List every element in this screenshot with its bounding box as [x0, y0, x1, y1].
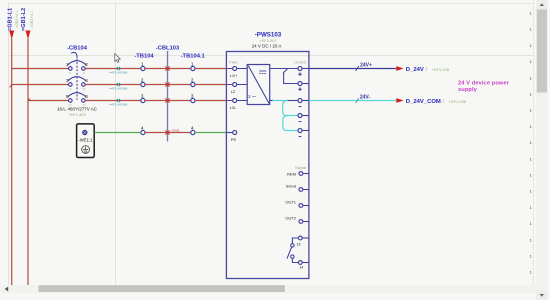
svg-text:~: ~	[252, 92, 257, 101]
interruption arrow 2	[26, 31, 31, 40]
svg-text:=KF1.403 BK: =KF1.403 BK	[109, 70, 127, 74]
svg-text:14: 14	[299, 266, 303, 270]
svg-text:InAC: InAC	[229, 60, 238, 65]
signal section label	[295, 165, 306, 170]
svg-text:D_24V: D_24V	[406, 67, 424, 73]
terminal strip TB104	[134, 54, 154, 60]
wire WE1 to TB104:4 (green PE)	[94, 132, 140, 134]
cable conductor mark PE	[165, 128, 179, 134]
wire rail 2 vertical	[27, 39, 29, 286]
cable conductor mark row1	[165, 66, 169, 70]
svg-text:+KF1.206: +KF1.206	[432, 67, 450, 72]
horizontal scrollbar	[0, 285, 536, 293]
wire CB104 to TB104 row2	[85, 84, 141, 86]
interruption arrow D_24V	[396, 66, 450, 73]
wire 24V-	[309, 95, 396, 103]
svg-text:-CB104: -CB104	[67, 45, 88, 51]
svg-text:=KF1.403 BK: =KF1.403 BK	[109, 86, 127, 90]
interruption point label =GB1-L2	[21, 8, 34, 31]
svg-text:Signal: Signal	[295, 165, 306, 170]
wire L2	[10, 85, 69, 88]
terminal TB104.1:3	[191, 94, 195, 103]
PWS103 terminal - (2)	[298, 114, 309, 122]
CB104 pole 3	[66, 93, 88, 107]
frame column index digits	[530, 11, 533, 275]
cable CBL103	[156, 46, 180, 142]
note 24V device power supply	[458, 80, 510, 93]
svg-text:-CBL103: -CBL103	[156, 46, 180, 52]
jumper + terminals	[284, 69, 298, 84]
connection definition point row2	[109, 83, 127, 91]
PWS103 terminal L2	[226, 83, 247, 94]
interruption arrow 1	[9, 31, 14, 40]
svg-text:=GB1+4.1: =GB1+4.1	[30, 11, 34, 28]
wire 24V+	[309, 63, 396, 71]
wire CB104 to TB104 row1	[85, 68, 141, 70]
svg-text:+KF1.403: +KF1.403	[68, 112, 86, 117]
PWS103 terminal + (2)	[298, 82, 309, 92]
PWS103 terminal OUT1	[285, 200, 309, 208]
svg-text:L3/-: L3/-	[230, 105, 238, 110]
svg-text:supply: supply	[458, 87, 478, 93]
CB104 pole 2	[66, 77, 88, 91]
CB104 pole 1	[66, 61, 88, 75]
wire CB104 to TB104 row3	[85, 100, 141, 102]
svg-text:-WE1:1: -WE1:1	[79, 138, 94, 143]
svg-text:+KF1.407: +KF1.407	[259, 38, 277, 43]
wire L3	[28, 98, 69, 101]
terminal TB104:4	[141, 126, 145, 135]
svg-text:+KF1.206: +KF1.206	[449, 99, 467, 104]
PWS103 terminal PE	[226, 131, 236, 142]
wire converter to OutDC - (internal, cyan segment)	[270, 100, 298, 102]
svg-text:-TB104: -TB104	[134, 54, 154, 60]
wire L1	[12, 68, 69, 70]
power supply U1 PWS103 block	[226, 32, 309, 279]
interruption arrow D_24V_COM	[396, 98, 467, 105]
svg-text:=GB1-L2: =GB1-L2	[21, 8, 27, 31]
svg-text:13: 13	[297, 242, 301, 246]
relay contact 13/14	[287, 236, 309, 270]
wire TB104 to TB104.1 row1	[145, 68, 191, 70]
PWS103 terminal - (1)	[298, 99, 309, 107]
earth electrode WE1	[77, 124, 95, 158]
terminal TB104:2	[141, 78, 145, 87]
wire TB104.1 to PWS103 L2	[195, 84, 226, 86]
svg-text:=GB1-L1: =GB1-L1	[7, 8, 13, 31]
connection definition point row3	[109, 99, 127, 107]
terminal TB104.1:1	[191, 62, 195, 71]
jumper - terminals (cyan)	[283, 101, 298, 131]
PWS103 terminal REM	[287, 171, 309, 176]
cable conductor mark row2	[165, 82, 169, 86]
svg-text:SGnd: SGnd	[286, 184, 296, 189]
PWS103 terminal L1/+	[226, 67, 247, 78]
svg-text:24V+: 24V+	[360, 63, 372, 69]
wire rail 1 vertical	[11, 39, 13, 286]
svg-text:24V-: 24V-	[360, 95, 371, 101]
svg-text:PE: PE	[231, 137, 237, 142]
mouse cursor	[115, 54, 121, 63]
svg-text:D_24V_COM: D_24V_COM	[406, 99, 441, 105]
interruption point label =GB1-L1	[7, 8, 19, 31]
svg-text:=KF1.403 BK: =KF1.403 BK	[109, 102, 127, 106]
svg-text:3: 3	[248, 94, 251, 99]
connection definition point row1	[109, 67, 127, 75]
cable conductor mark row3	[165, 98, 169, 102]
svg-text:L1/+: L1/+	[230, 73, 239, 78]
svg-text:OUT1: OUT1	[285, 200, 296, 205]
CB104 value label	[57, 107, 98, 118]
terminal TB104.1:2	[191, 78, 195, 87]
frame grid line horizontal	[8, 55, 534, 57]
terminal TB104:1	[141, 62, 145, 71]
svg-text:REM: REM	[287, 171, 296, 176]
terminal TB104:3	[141, 94, 145, 103]
PWS103 terminal - (3)	[298, 129, 309, 137]
wire TB104.1:4 to PWS103 PE (green)	[195, 132, 226, 134]
wire TB104.1 to PWS103 L3	[195, 100, 226, 102]
AC/DC converter symbol inside PWS103	[247, 65, 270, 105]
svg-text:16A, 480Y/277V AC: 16A, 480Y/277V AC	[57, 107, 98, 112]
vertical scrollbar	[536, 0, 547, 300]
svg-text:-TB104.1: -TB104.1	[181, 54, 206, 60]
svg-text:=GB1+4.1: =GB1+4.1	[15, 11, 19, 28]
wire TB104.1 to PWS103 L1	[195, 68, 226, 70]
wire TB104 to TB104.1 row2	[145, 84, 191, 86]
frame grid line vertical	[115, 4, 117, 286]
wire converter to OutDC + (internal)	[270, 68, 298, 70]
svg-text:24 V device power: 24 V device power	[458, 80, 510, 86]
circuit breaker CB104	[67, 45, 88, 99]
svg-text:GNYE: GNYE	[172, 128, 180, 132]
terminal TB104.1:4	[191, 126, 195, 135]
wire TB104 to TB104.1 row3	[145, 100, 191, 102]
PWS103 terminal SGnd	[286, 184, 309, 192]
PWS103 terminal + (1)	[298, 67, 309, 77]
svg-text:L2: L2	[231, 89, 236, 94]
PWS103 terminal L3/-	[226, 99, 247, 110]
svg-text:24 V DC / 20 A: 24 V DC / 20 A	[252, 44, 282, 49]
svg-text:OUT2: OUT2	[285, 216, 296, 221]
svg-text:OutDC: OutDC	[294, 60, 306, 65]
wire TB104 to TB104.1 PE row	[145, 132, 191, 134]
terminal strip TB104.1	[181, 54, 206, 60]
PWS103 terminal OUT2	[285, 216, 309, 224]
